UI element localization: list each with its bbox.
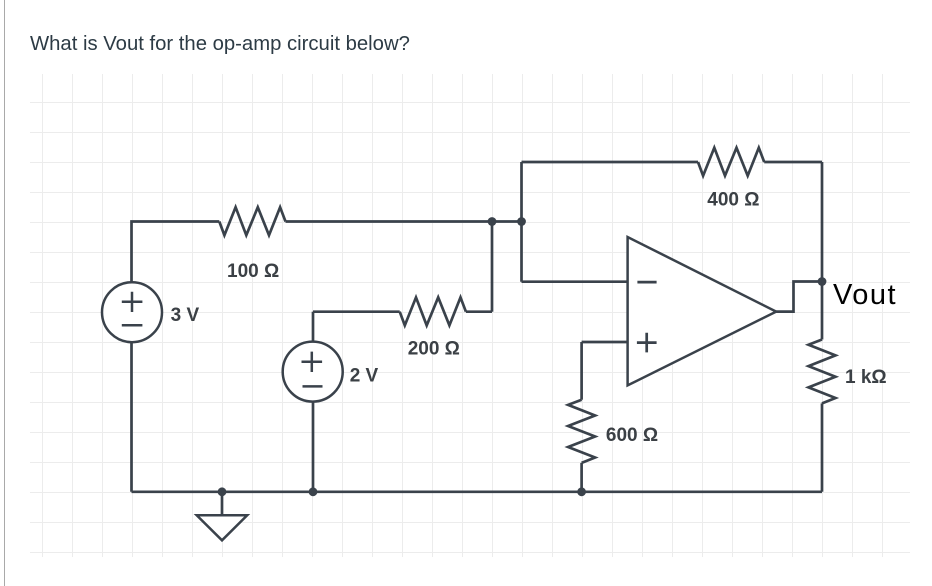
resistor R5 1k zigzag <box>809 340 836 404</box>
ground stub wire <box>221 492 224 515</box>
svg-text:1 kΩ: 1 kΩ <box>845 367 887 388</box>
wire: 600ohm top lead <box>580 342 583 400</box>
resistor R4 600ohm zigzag <box>568 400 595 463</box>
V2 minus symbol <box>303 385 323 388</box>
page left border <box>4 0 5 586</box>
op-amp plus symbol <box>637 333 657 353</box>
op-amp minus symbol <box>637 281 656 284</box>
wire: top rail to 400ohm <box>522 161 699 164</box>
node A junction dot <box>488 217 497 226</box>
V2 plus symbol <box>302 352 323 372</box>
node Vout junction dot <box>818 277 827 286</box>
V1 minus symbol <box>122 324 143 327</box>
wire: node A down to 200ohm rail <box>491 222 494 312</box>
question title <box>30 33 410 56</box>
svg-text:100 Ω: 100 Ω <box>227 261 279 282</box>
wire: 3V bottom lead <box>130 342 133 492</box>
wire: 2V source top lead to 200ohm <box>313 310 400 313</box>
wire: right rail down to 1k top <box>821 162 824 340</box>
wire: 100ohm to node A and node B <box>286 220 522 223</box>
node B junction dot <box>517 217 526 226</box>
op-amp U1 triangle <box>628 237 777 385</box>
svg-text:2 V: 2 V <box>350 365 379 386</box>
resistor R2 200ohm zigzag <box>400 297 466 325</box>
svg-text:3 V: 3 V <box>171 305 200 326</box>
wire: bottom rail <box>132 490 823 493</box>
wire: 400ohm to right rail <box>764 161 822 164</box>
voltage source V2 2V circle <box>283 342 343 402</box>
ground symbol triangle <box>197 515 248 540</box>
node: 2V bottom junction dot <box>309 487 318 496</box>
svg-text:600 Ω: 600 Ω <box>606 425 658 446</box>
wire: 1k bottom lead <box>821 403 824 491</box>
grid background <box>30 74 910 557</box>
voltage source V1 3V circle <box>102 282 162 342</box>
wire: 600ohm bottom lead <box>580 463 583 492</box>
svg-text:Vout: Vout <box>833 279 897 311</box>
V1 plus symbol <box>122 292 143 312</box>
wire: 2V bottom lead <box>312 402 315 492</box>
wire: inverting input <box>522 280 628 283</box>
wire: node B vertical (feedback top to inverting input) <box>520 162 523 282</box>
resistor R1 100ohm zigzag <box>219 207 285 235</box>
node: 600ohm bottom junction dot <box>577 487 586 496</box>
svg-text:200 Ω: 200 Ω <box>408 339 460 360</box>
wire: op-amp output <box>776 282 822 312</box>
wire: 200ohm right lead <box>466 310 492 313</box>
wire: 3V top lead + top-left horizontal to 100ohm <box>132 222 220 283</box>
svg-text:400 Ω: 400 Ω <box>707 189 759 210</box>
node: ground junction dot <box>218 487 227 496</box>
wire: non-inverting input <box>582 341 627 344</box>
resistor R3 400ohm zigzag <box>698 148 764 176</box>
